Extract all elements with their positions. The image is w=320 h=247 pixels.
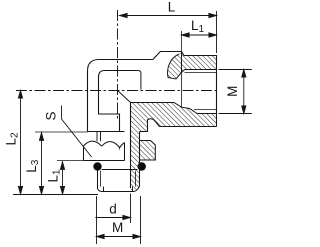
d dim (95, 217, 130, 219)
stud bottom face + right corner (102, 186, 140, 192)
nut face edge (181, 52, 183, 73)
bottom extension line (13, 194, 98, 196)
L dim (120, 15, 217, 17)
L3 dim (41, 133, 43, 194)
M right dim (243, 70, 245, 114)
O-ring seal section dot left (93, 162, 101, 170)
stud thread root right (135, 171, 137, 187)
neck verticals (97, 132, 101, 142)
hex chamfer arcs external (84, 141, 102, 146)
section hatch: female port top wall (168, 52, 217, 80)
L1 dim top (182, 34, 217, 36)
outer slope up to nut top (153, 52, 182, 60)
section hatch: female port bottom wall + stud right wall (131, 103, 217, 192)
stud column left edge (130, 103, 132, 189)
counterbore face edge (138, 71, 141, 90)
horizontal centerline (female port axis) (16, 90, 219, 92)
L2 dim (20, 91, 22, 195)
S leader (62, 106, 92, 158)
elbow inner contour (99, 71, 139, 132)
svg-text:M: M (112, 220, 123, 235)
svg-text:d: d (109, 201, 117, 216)
port bottom outline with neck bump (140, 119, 217, 132)
cavity top cone (168, 70, 217, 80)
svg-text:M: M (225, 86, 240, 97)
nut-sleeve step + sleeve top + right end face (182, 52, 217, 127)
L1 dim bottom left (62, 162, 64, 194)
cavity bottom line (131, 103, 217, 114)
svg-text:S: S (44, 111, 59, 120)
hex sectioned part outline (140, 141, 156, 161)
thread minor lines female port (185, 73, 217, 110)
M bottom dim (97, 236, 141, 238)
hex side edges (84, 143, 125, 161)
stud thread OD left + corner (98, 171, 102, 192)
hex front corner edge (119, 148, 121, 150)
svg-text:L: L (168, 0, 176, 15)
O-ring seal section dot right (138, 162, 146, 170)
dome curve (external fillet boundary) (168, 54, 180, 78)
hex bottom line (84, 160, 125, 162)
bottom chamfer verticals (104, 187, 133, 192)
elbow outer contour: top line + corner arc + left vertical (88, 60, 153, 132)
section cut diagonal (118, 91, 131, 103)
O-ring groove bottom line (102, 169, 138, 171)
section hatch: stud hex right part (140, 141, 156, 161)
stud thread root left (100, 171, 102, 187)
elbow leg bottom / washer top line (88, 131, 125, 133)
stud column right edge (139, 132, 141, 187)
vertical centerline (stud axis) (117, 10, 119, 119)
